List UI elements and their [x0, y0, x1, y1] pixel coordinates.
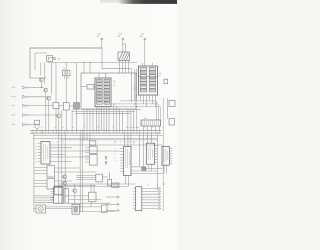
junction: [133, 127, 134, 128]
input terminal вс д: [23, 95, 26, 98]
IC U9 body: [162, 146, 169, 165]
svg-text:м: м: [115, 148, 116, 150]
wire motor in: [34, 208, 36, 210]
wire R2 up: [65, 79, 67, 103]
svg-text:б7: б7: [35, 161, 37, 163]
wire strip feed: [127, 109, 129, 130]
terminal arrow: [117, 209, 119, 211]
wire X2 bottom pin: [143, 95, 145, 104]
wire bar bottom: [30, 132, 161, 134]
junction: [41, 87, 42, 88]
zener VD3: [105, 161, 107, 165]
wire bar down right: [143, 133, 145, 167]
zener VD2: [105, 156, 107, 160]
resistor network RN1: [64, 189, 68, 204]
wire bus 5: [72, 110, 135, 112]
wire X2 bottom pin: [152, 95, 154, 104]
wire mid stub: [83, 133, 85, 141]
wire stub: [27, 96, 30, 98]
wire relay pin: [125, 61, 127, 74]
junction: [122, 111, 123, 112]
terminal ring вс д: [26, 96, 28, 98]
junction: [134, 103, 135, 104]
terminal arrow: [117, 203, 119, 205]
svg-text:РП: РП: [159, 75, 162, 77]
sensor B1 box: [35, 120, 40, 124]
terminal T1: [101, 38, 103, 40]
wire U3 out: [55, 180, 73, 182]
resistor R1: [53, 103, 59, 109]
wire U9 drop2: [166, 165, 168, 173]
terminal ring 22 п: [26, 114, 28, 116]
transistor Q2 internals: [45, 88, 47, 92]
switch unit box A inner: [35, 53, 47, 70]
wire to terminal: [106, 196, 117, 198]
svg-text:13: 13: [97, 127, 99, 129]
wire vertical bus: [136, 69, 138, 101]
svg-text:ВК: ВК: [118, 36, 121, 38]
wire bus drop: [113, 104, 115, 130]
switch S1 terminal: [53, 57, 55, 59]
svg-text:зап: зап: [113, 83, 116, 85]
wire H1 pin2: [65, 76, 67, 80]
wire module down: [89, 109, 91, 130]
wire U8 drop1: [148, 164, 150, 168]
wire X2 divider: [139, 75, 158, 77]
fuse F1: [112, 183, 119, 187]
connector X4 body: [136, 187, 142, 211]
U6 input wires: [76, 176, 96, 180]
wire lower rail 2: [33, 138, 157, 140]
wire U10 top pin: [90, 184, 92, 192]
wire U10 top pin2: [93, 184, 95, 192]
motor M1: [38, 207, 43, 212]
wire stub: [27, 87, 30, 89]
svg-text:м: м: [115, 157, 116, 159]
wire relay pin: [128, 61, 130, 74]
wire ladder: [142, 193, 159, 195]
wire vertical bus: [131, 69, 133, 101]
terminal arrow: [117, 196, 119, 198]
wire stub: [27, 114, 30, 116]
transistor Q1 internals: [40, 78, 42, 82]
switch S1 pole: [47, 57, 49, 61]
svg-text:4т1: 4т1: [114, 142, 116, 144]
control unit box B: [81, 73, 136, 109]
wire row2: [28, 96, 47, 98]
wire X2 top pin 3: [144, 63, 146, 66]
wire Q3 down: [48, 101, 50, 131]
wire X1 bottom pin: [98, 107, 100, 131]
capacitor C7: [169, 119, 175, 125]
wire ladder: [142, 188, 159, 190]
svg-text:б1: б1: [35, 143, 37, 145]
wire row5: [28, 124, 36, 126]
wire row5 join: [35, 124, 37, 126]
svg-text:11: 11: [84, 127, 86, 129]
wire bt4: [46, 206, 102, 208]
wire bar to U8: [147, 133, 149, 143]
wire X2 bottom pin: [155, 95, 157, 107]
terminal ring чтл: [26, 105, 28, 107]
wire row3: [28, 105, 53, 107]
wire U10 bottom pin: [90, 201, 92, 207]
wire R3 up: [76, 63, 78, 103]
wire bottom row: [34, 197, 54, 199]
wire row4: [28, 114, 57, 116]
wire module down: [92, 109, 94, 130]
svg-text:7м: 7м: [62, 127, 64, 129]
wire Q3 up: [51, 63, 53, 95]
driver U10: [89, 192, 96, 201]
lamp H1 cross: [65, 72, 67, 74]
svg-text:б6: б6: [35, 158, 37, 160]
fuse F1 segments: [113, 184, 118, 187]
wire bar to U7: [130, 133, 132, 146]
wire U1 out2: [50, 150, 120, 152]
wire X3 down: [151, 126, 153, 130]
wire to terminal: [106, 210, 117, 212]
wire rail y62: [48, 62, 137, 64]
wire lower rail 1: [33, 134, 163, 136]
svg-text:м: м: [115, 151, 116, 153]
terminal T3: [144, 38, 146, 40]
resistor R22: [108, 179, 112, 185]
wire X2 bottom pin: [146, 95, 148, 107]
bus wire right 3: [96, 107, 160, 120]
sensor B1: [35, 125, 39, 129]
wire X3 down: [159, 126, 161, 130]
wire relay bus: [102, 68, 132, 70]
wire ladder: [142, 196, 159, 198]
relay K2 body: [54, 187, 63, 204]
wire bottom row: [34, 199, 54, 201]
wire to R10: [81, 86, 87, 88]
wire right low 1: [146, 168, 163, 170]
scan shadow bar top right: [100, 0, 177, 3]
transistor Q5: [63, 175, 67, 179]
wire R3a down: [71, 109, 73, 130]
svg-text:тр: тр: [134, 89, 136, 91]
lamp H1: [65, 71, 68, 74]
motor M1 box: [36, 205, 46, 213]
wire bus drop: [116, 107, 118, 131]
wire lamp up: [65, 63, 67, 71]
wire row1: [28, 87, 44, 89]
wire right low 3: [58, 183, 135, 185]
resistor R24 (dark): [142, 167, 146, 171]
wire bus 4: [81, 108, 141, 110]
wire top rail: [30, 47, 102, 49]
svg-text:4т: 4т: [56, 142, 58, 144]
wire switch down: [47, 62, 49, 63]
transistor Q7 internals: [74, 189, 76, 193]
wire stub: [27, 124, 30, 126]
svg-text:4Р: 4Р: [63, 68, 65, 70]
junction: [113, 103, 114, 104]
wire U1 out3: [50, 156, 89, 158]
svg-text:ЗК: ЗК: [97, 36, 100, 38]
connector X3 strip: [141, 120, 161, 126]
svg-text:ьнм: ьнм: [12, 124, 16, 126]
transistor Q1: [39, 78, 43, 82]
wire X3 down: [147, 126, 149, 130]
wire into box B: [83, 63, 85, 73]
wire X3 down: [155, 126, 157, 130]
relay K1 (hatched): [118, 52, 130, 61]
junction: [136, 106, 137, 107]
connector X1 pin cells: [97, 80, 110, 105]
svg-text:4т3: 4т3: [133, 142, 135, 144]
U8 internal text: [148, 147, 152, 160]
svg-text:Ш-4: Ш-4: [144, 118, 147, 120]
svg-text:22 п: 22 п: [12, 114, 16, 116]
wire U2 out: [55, 167, 81, 169]
wire X1 bottom pin: [103, 107, 105, 131]
wire ladder: [142, 205, 159, 207]
bus wire right 2: [113, 104, 158, 120]
resistor R20: [89, 141, 96, 145]
ladder terminal: [159, 205, 161, 207]
wire ladder: [142, 199, 159, 201]
switch S1 contact: [48, 57, 52, 58]
input terminal 22 п: [23, 114, 26, 117]
wire Q4 up: [58, 106, 60, 113]
svg-text:22 п: 22 п: [12, 87, 16, 89]
wire U6-R22: [102, 176, 107, 178]
svg-text:м: м: [115, 154, 116, 156]
wire B1 link: [36, 123, 38, 125]
wire U1 out1: [50, 144, 163, 146]
resistor R23: [55, 187, 62, 194]
wire mid vertical2: [79, 133, 81, 211]
wire strip feed: [133, 109, 135, 130]
wire bar to U7: [127, 133, 129, 146]
svg-text:4т: 4т: [62, 142, 64, 144]
connector X1 body: [95, 78, 111, 107]
wire X1 bottom pin: [108, 107, 110, 131]
IC U7 body: [124, 147, 132, 176]
ladder terminal: [159, 207, 161, 209]
ladder terminal: [159, 187, 161, 189]
input terminal чтл: [23, 104, 26, 107]
wire U1 out1b: [50, 147, 72, 149]
wire relay top link: [123, 43, 126, 45]
wire mid stub: [86, 133, 88, 141]
wire right margin 2: [167, 98, 169, 119]
wire into box B2: [89, 63, 91, 73]
svg-text:б5: б5: [35, 155, 37, 157]
wire right vertical long: [156, 133, 158, 190]
relay K2 divider: [54, 194, 63, 196]
wire D-E: [59, 105, 63, 107]
transistor Q7: [73, 189, 77, 193]
svg-text:б3: б3: [35, 149, 37, 151]
svg-text:4т: 4т: [128, 142, 130, 144]
junction: [136, 127, 137, 128]
U8 pins: [155, 146, 158, 163]
transistor Q6: [63, 181, 67, 185]
X4 left pins: [133, 189, 136, 209]
wire bus 6: [75, 112, 130, 114]
terminal T2: [122, 38, 124, 40]
wire stub: [27, 105, 30, 107]
svg-text:9д: 9д: [72, 127, 74, 129]
U9 pins: [169, 149, 172, 164]
op-amp U1 body: [41, 142, 50, 165]
resistor R2: [63, 103, 69, 110]
junction: [130, 127, 131, 128]
wire Q1 collector: [40, 63, 42, 76]
input terminal 22 п: [23, 86, 26, 89]
wire mid vertical: [61, 133, 63, 203]
IC U8 body: [146, 143, 154, 164]
wire R1 up: [55, 63, 57, 103]
wire module down: [86, 109, 88, 130]
U7 pins: [120, 149, 124, 172]
wire from T2: [122, 40, 124, 52]
switch unit box A outer: [30, 48, 102, 78]
U9 internal text: [164, 149, 168, 162]
svg-text:вкл: вкл: [113, 85, 115, 87]
wire strip feed: [130, 109, 132, 130]
transistor Q3 internals: [48, 96, 50, 100]
wire from T1: [101, 40, 103, 48]
wire E-F: [69, 105, 73, 107]
wire U7 drop1: [125, 176, 127, 185]
wire vertical bus: [134, 69, 136, 101]
wire bt3: [63, 202, 110, 204]
wire right low 5: [131, 173, 163, 175]
U1 internal text: [44, 144, 48, 161]
wire R22 up: [109, 172, 111, 179]
wire bus drop: [122, 111, 124, 130]
right margin vertical wire: [162, 98, 164, 211]
svg-text:17: 17: [125, 127, 127, 129]
wire X1 bottom pin: [96, 107, 98, 131]
connector X3 pins: [143, 121, 161, 125]
wire relay pin: [122, 61, 124, 74]
svg-text:4т: 4т: [120, 142, 122, 144]
junction: [131, 100, 132, 101]
wire U7 drop2: [128, 176, 130, 188]
U4/U5 pins: [85, 148, 89, 163]
terminal ring ьнм: [26, 124, 28, 126]
wire relay top stub: [125, 44, 127, 52]
wire X1 bottom pin: [101, 107, 103, 131]
terminal ring 22 п: [26, 87, 28, 89]
wire relay pin: [119, 61, 121, 74]
wire U3 out2: [55, 185, 96, 187]
wire to terminal: [106, 203, 117, 205]
svg-text:чтл: чтл: [12, 105, 16, 107]
op-amp U1 pins: [38, 144, 42, 162]
wire X1 top pin 2: [105, 73, 107, 78]
wire ladder: [142, 202, 159, 204]
resistor R3 (dark): [74, 103, 80, 110]
wire bt1: [63, 195, 89, 197]
capacitor C6: [169, 101, 175, 107]
U2/U3 pins: [34, 168, 47, 187]
wire bar to U7: [124, 133, 126, 146]
wire R2 down: [65, 110, 67, 130]
top tick: [163, 183, 166, 185]
transistor Q4 internals: [58, 114, 60, 118]
wire X2 top pin 1: [142, 63, 144, 66]
svg-text:12В: 12В: [159, 73, 162, 75]
ladder terminal: [159, 193, 161, 195]
connector bar pins: [33, 130, 160, 134]
svg-text:ш2: ш2: [147, 185, 149, 187]
wire mid vertical: [57, 133, 59, 203]
junction: [83, 62, 84, 63]
wire to R24: [131, 166, 142, 168]
wire U8 drop2: [151, 164, 153, 171]
wire right low 4: [58, 186, 128, 188]
wire module down: [83, 109, 85, 130]
svg-text:5н: 5н: [54, 127, 56, 129]
wire X2 top pin 2: [151, 63, 153, 66]
wire U2 out2: [55, 171, 96, 173]
wire U1 out4: [50, 161, 72, 163]
wire bus drop: [119, 109, 121, 130]
resistor block R10: [87, 85, 94, 90]
transistor Q6 internals: [64, 182, 66, 186]
svg-text:8: 8: [144, 127, 145, 129]
svg-text:19: 19: [138, 127, 140, 129]
capacitor C5: [164, 79, 168, 84]
wire mid vertical: [64, 133, 66, 203]
svg-text:12в: 12в: [113, 81, 116, 83]
wire switch to terminal: [52, 58, 53, 60]
wire Q1 emitter: [40, 82, 42, 87]
wire U1 out2b: [50, 154, 65, 156]
wire R1 down: [55, 109, 57, 131]
junction: [116, 106, 117, 107]
bus wire right 1: [120, 101, 156, 120]
wire H1 pin3: [67, 76, 69, 80]
comparator U2: [47, 166, 55, 178]
wire X1 bottom pin: [106, 107, 108, 131]
input terminal ьнм: [23, 123, 26, 126]
wire left bus: [33, 133, 35, 212]
junction: [89, 62, 90, 63]
ladder terminal: [159, 190, 161, 192]
ladder terminal: [159, 196, 161, 198]
transistor Q2: [44, 88, 48, 92]
svg-text:б4: б4: [35, 152, 37, 154]
wire Q7 down: [74, 193, 76, 204]
wire Q2 up: [44, 63, 46, 85]
wire B1 down: [36, 129, 38, 131]
wire mid stub: [89, 133, 91, 141]
comparator U3: [47, 179, 55, 190]
transistor Q3: [47, 96, 51, 100]
wire H1 pin1: [64, 76, 66, 80]
ladder terminal: [159, 199, 161, 201]
wire X3 down: [143, 126, 145, 130]
svg-text:4т2: 4т2: [124, 142, 126, 144]
regulator U5: [89, 155, 97, 165]
ignition switch S1: [47, 56, 53, 62]
svg-text:1п: 1п: [33, 127, 35, 129]
wire bottom row: [34, 195, 54, 197]
wire Q4 down: [58, 118, 60, 130]
wire from T3: [144, 40, 146, 63]
wire bar to U8: [151, 133, 153, 143]
wire mid vertical2: [81, 133, 83, 211]
junction: [101, 47, 102, 48]
